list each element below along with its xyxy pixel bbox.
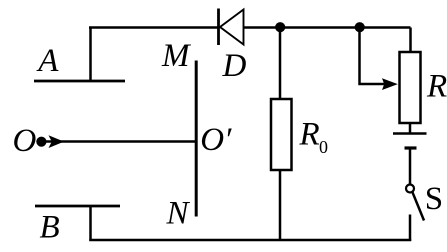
node junction dot (R0 branch) <box>275 22 285 32</box>
svg-text:0: 0 <box>319 137 328 157</box>
svg-text:M: M <box>161 38 191 74</box>
wire vertical connector from B <box>89 206 92 241</box>
battery short plate <box>405 146 417 149</box>
wire R bottom stub <box>409 123 412 134</box>
battery long plate <box>393 132 427 134</box>
terminal B lead <box>35 205 120 208</box>
node junction dot (rheostat arrow branch) <box>355 22 365 32</box>
svg-text:O: O <box>13 123 37 159</box>
wire battery to switch <box>409 148 412 185</box>
wire rheostat arrow branch <box>360 28 386 85</box>
wire top-left segment from A branch to diode <box>89 26 219 29</box>
wire switch bottom lead <box>409 215 412 242</box>
svg-text:O′: O′ <box>200 122 232 158</box>
switch S blade <box>412 192 424 221</box>
wire bottom bus <box>89 239 411 242</box>
svg-text:D: D <box>222 48 247 84</box>
switch S hinge <box>406 185 414 193</box>
node O dot <box>36 137 46 147</box>
electrode plate M-N <box>195 61 198 217</box>
svg-text:A: A <box>36 43 59 79</box>
svg-text:N: N <box>166 195 191 231</box>
wire top-right segment from diode to R branch corner <box>244 26 411 29</box>
wire R0 branch top lead <box>279 28 282 101</box>
resistor R <box>400 52 421 123</box>
diode D <box>219 9 244 46</box>
wire O to O' pointer with arrow <box>42 140 196 143</box>
svg-text:B: B <box>40 210 60 246</box>
terminal A lead <box>34 80 125 83</box>
rheostat wiper arrowhead <box>382 78 398 90</box>
svg-text:S: S <box>425 181 443 217</box>
wire corner to resistor R <box>409 28 412 54</box>
resistor R0 <box>271 99 292 170</box>
wire vertical connector to terminal A <box>89 27 92 82</box>
svg-text:R: R <box>299 117 320 153</box>
wire R0 branch bottom lead <box>279 170 282 241</box>
svg-text:R: R <box>426 69 447 105</box>
